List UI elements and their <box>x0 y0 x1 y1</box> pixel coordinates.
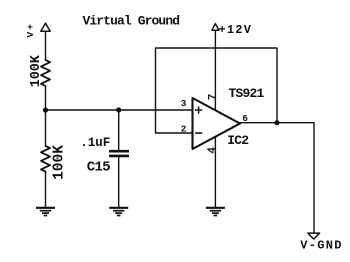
junction dot output node <box>274 120 279 125</box>
svg-text:3: 3 <box>181 98 187 109</box>
wire V+ to R1 <box>45 31 47 60</box>
capacitor C15 <box>109 151 129 156</box>
plus input symbol <box>195 106 202 113</box>
svg-text:7: 7 <box>208 94 220 101</box>
svg-text:IC2: IC2 <box>227 133 249 148</box>
svg-text:2: 2 <box>181 124 187 135</box>
svg-text:100K: 100K <box>29 54 44 87</box>
supply symbol V+ <box>41 23 50 31</box>
supply symbol +12V <box>212 24 219 31</box>
wire R1 to R2 <box>45 86 47 146</box>
wire pin 4 to ground <box>214 136 216 208</box>
wire +12V to pin 7 <box>214 30 216 111</box>
ground (below C15) <box>109 208 128 216</box>
junction dot at capacitor <box>116 107 121 112</box>
op-amp U IC2 triangle <box>193 98 241 149</box>
wire capacitor to ground <box>118 156 120 208</box>
supply symbol V-GND arrow <box>308 233 320 239</box>
svg-text:C15: C15 <box>87 160 110 176</box>
ground (below R2) <box>36 208 55 216</box>
wire R2 to ground <box>45 172 47 209</box>
svg-text:V-GND: V-GND <box>300 238 343 252</box>
ground (below pin 4) <box>206 208 225 216</box>
svg-text:Virtual Ground: Virtual Ground <box>83 14 180 29</box>
resistor R2 <box>41 146 50 171</box>
wire node A to capacitor C15 <box>118 110 120 151</box>
svg-text:TS921: TS921 <box>229 86 265 101</box>
svg-text:+12V: +12V <box>219 23 253 37</box>
svg-text:100K: 100K <box>51 145 67 180</box>
wire bus node A to op-amp pin 3 <box>46 109 193 111</box>
node A junction dot <box>43 107 48 112</box>
wire feedback loop: pin2, left, top, right verticals <box>156 48 278 133</box>
wire output pin 6 to V-GND drop <box>240 123 314 233</box>
svg-text:4: 4 <box>207 147 219 154</box>
svg-text:.1uF: .1uF <box>80 136 110 150</box>
minus input symbol <box>195 132 202 134</box>
resistor R1 <box>41 60 50 86</box>
svg-text:V+: V+ <box>25 22 36 38</box>
